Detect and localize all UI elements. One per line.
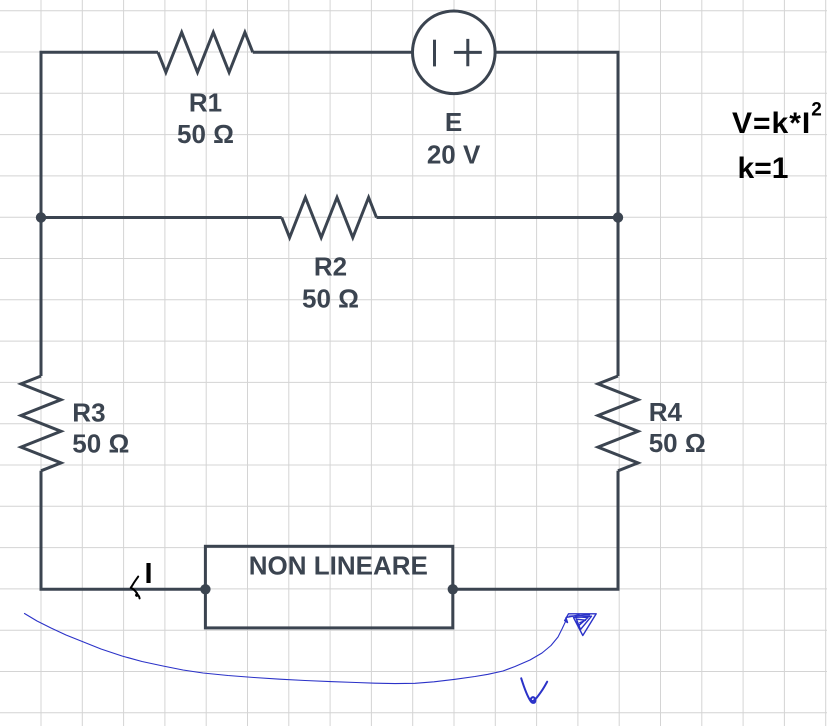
svg-text:k=1: k=1	[738, 152, 789, 185]
svg-text:50 Ω: 50 Ω	[302, 284, 359, 314]
wire: right lower vertical and bottom to box	[453, 471, 618, 590]
svg-text:50 Ω: 50 Ω	[649, 428, 706, 458]
resistor R3	[21, 376, 61, 471]
freehand current arrow at I	[131, 577, 140, 599]
junction dot: box left terminal	[200, 584, 210, 594]
svg-text:50 Ω: 50 Ω	[72, 428, 129, 458]
svg-text:V=k*I2: V=k*I2	[732, 100, 823, 141]
blue annotation curve (V across non-linear element)	[25, 614, 567, 684]
wire: R1 to source E	[253, 51, 413, 54]
wire: source E to top-right corner, down to right junction	[495, 52, 618, 217]
svg-text:50 Ω: 50 Ω	[177, 119, 234, 149]
svg-text:R1: R1	[189, 87, 222, 117]
svg-text:E: E	[445, 107, 462, 137]
svg-text:R4: R4	[649, 397, 683, 427]
junction dot: left middle node	[36, 212, 46, 222]
wire: right vertical (junction to R4)	[617, 218, 620, 377]
wire: top-left corner (R1 left end to left junction)	[41, 52, 158, 217]
source E minus terminal bar	[433, 40, 436, 67]
blue label V	[521, 678, 547, 703]
wire: left lower vertical and bottom to box	[41, 471, 205, 590]
blue arrowhead scribble	[565, 614, 596, 636]
svg-text:NON LINEARE: NON LINEARE	[249, 551, 428, 581]
junction dot: box right terminal	[448, 584, 458, 594]
resistor R2	[282, 198, 377, 238]
junction dot: right middle node	[613, 212, 623, 222]
load box NON LINEARE	[205, 546, 452, 628]
svg-text:R3: R3	[72, 397, 105, 427]
source E plus sign	[454, 39, 482, 66]
wire: left vertical (junction to R3)	[40, 218, 43, 377]
resistor R4	[598, 376, 638, 471]
svg-text:I: I	[144, 558, 152, 590]
svg-text:20 V: 20 V	[427, 140, 481, 170]
wire: middle right (right junction to R2)	[377, 216, 619, 219]
svg-text:R2: R2	[314, 252, 347, 282]
voltage source E (circle)	[413, 11, 496, 94]
resistor R1	[158, 32, 253, 72]
wire: middle left (R2 to left junction)	[41, 216, 282, 219]
